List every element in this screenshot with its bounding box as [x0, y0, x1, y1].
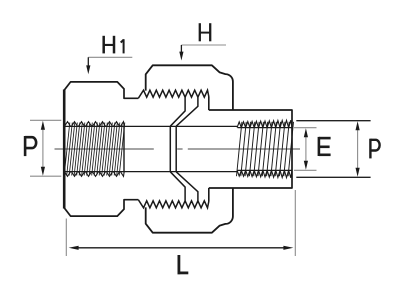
tube end verticals — [170, 126, 176, 172]
H1 arrow — [87, 57, 89, 66]
E arrow — [305, 135, 307, 164]
insert hanging verticals and cone diagonals bottom — [170, 172, 198, 201]
left hex left edge (thick) — [63, 90, 66, 209]
male end outline — [209, 110, 292, 188]
left thread hatch — [64, 123, 125, 176]
left hex nut H1 outline — [64, 82, 138, 216]
right thread crest sawtooth top — [237, 120, 292, 127]
right thread hatch — [237, 122, 294, 176]
left thread crest sawtooth top — [64, 122, 124, 127]
dimension P right label — [370, 139, 379, 159]
serration zigzag bottom — [138, 200, 209, 208]
P left arrow — [42, 128, 44, 169]
left female thread root lines (continue as bore lines) — [66, 126, 238, 171]
right port thread root lines — [238, 128, 293, 171]
P right arrow — [357, 128, 359, 170]
P left extension lines — [30, 120, 61, 176]
P right extension lines — [296, 121, 370, 178]
dimension P left label — [25, 136, 36, 156]
dimension H1 label — [104, 36, 114, 54]
right thread crest sawtooth bottom — [237, 170, 292, 177]
centerline — [55, 148, 301, 150]
L extension lines — [66, 190, 295, 256]
H arrow — [180, 45, 182, 53]
female thread end vertical — [123, 126, 125, 173]
insert hanging verticals and cone diagonals top — [170, 97, 198, 126]
H leader line — [181, 44, 226, 46]
serration zigzag top — [138, 90, 209, 98]
boss right edge — [208, 97, 210, 202]
dimension H label — [200, 23, 210, 41]
H1 leader line — [88, 56, 132, 58]
left thread crest sawtooth bottom — [64, 172, 124, 177]
dimension L label — [178, 255, 189, 274]
body hex H outline top — [146, 65, 233, 232]
L dimension line — [76, 247, 286, 249]
dimension E label — [319, 137, 331, 156]
E extension lines — [294, 128, 317, 171]
